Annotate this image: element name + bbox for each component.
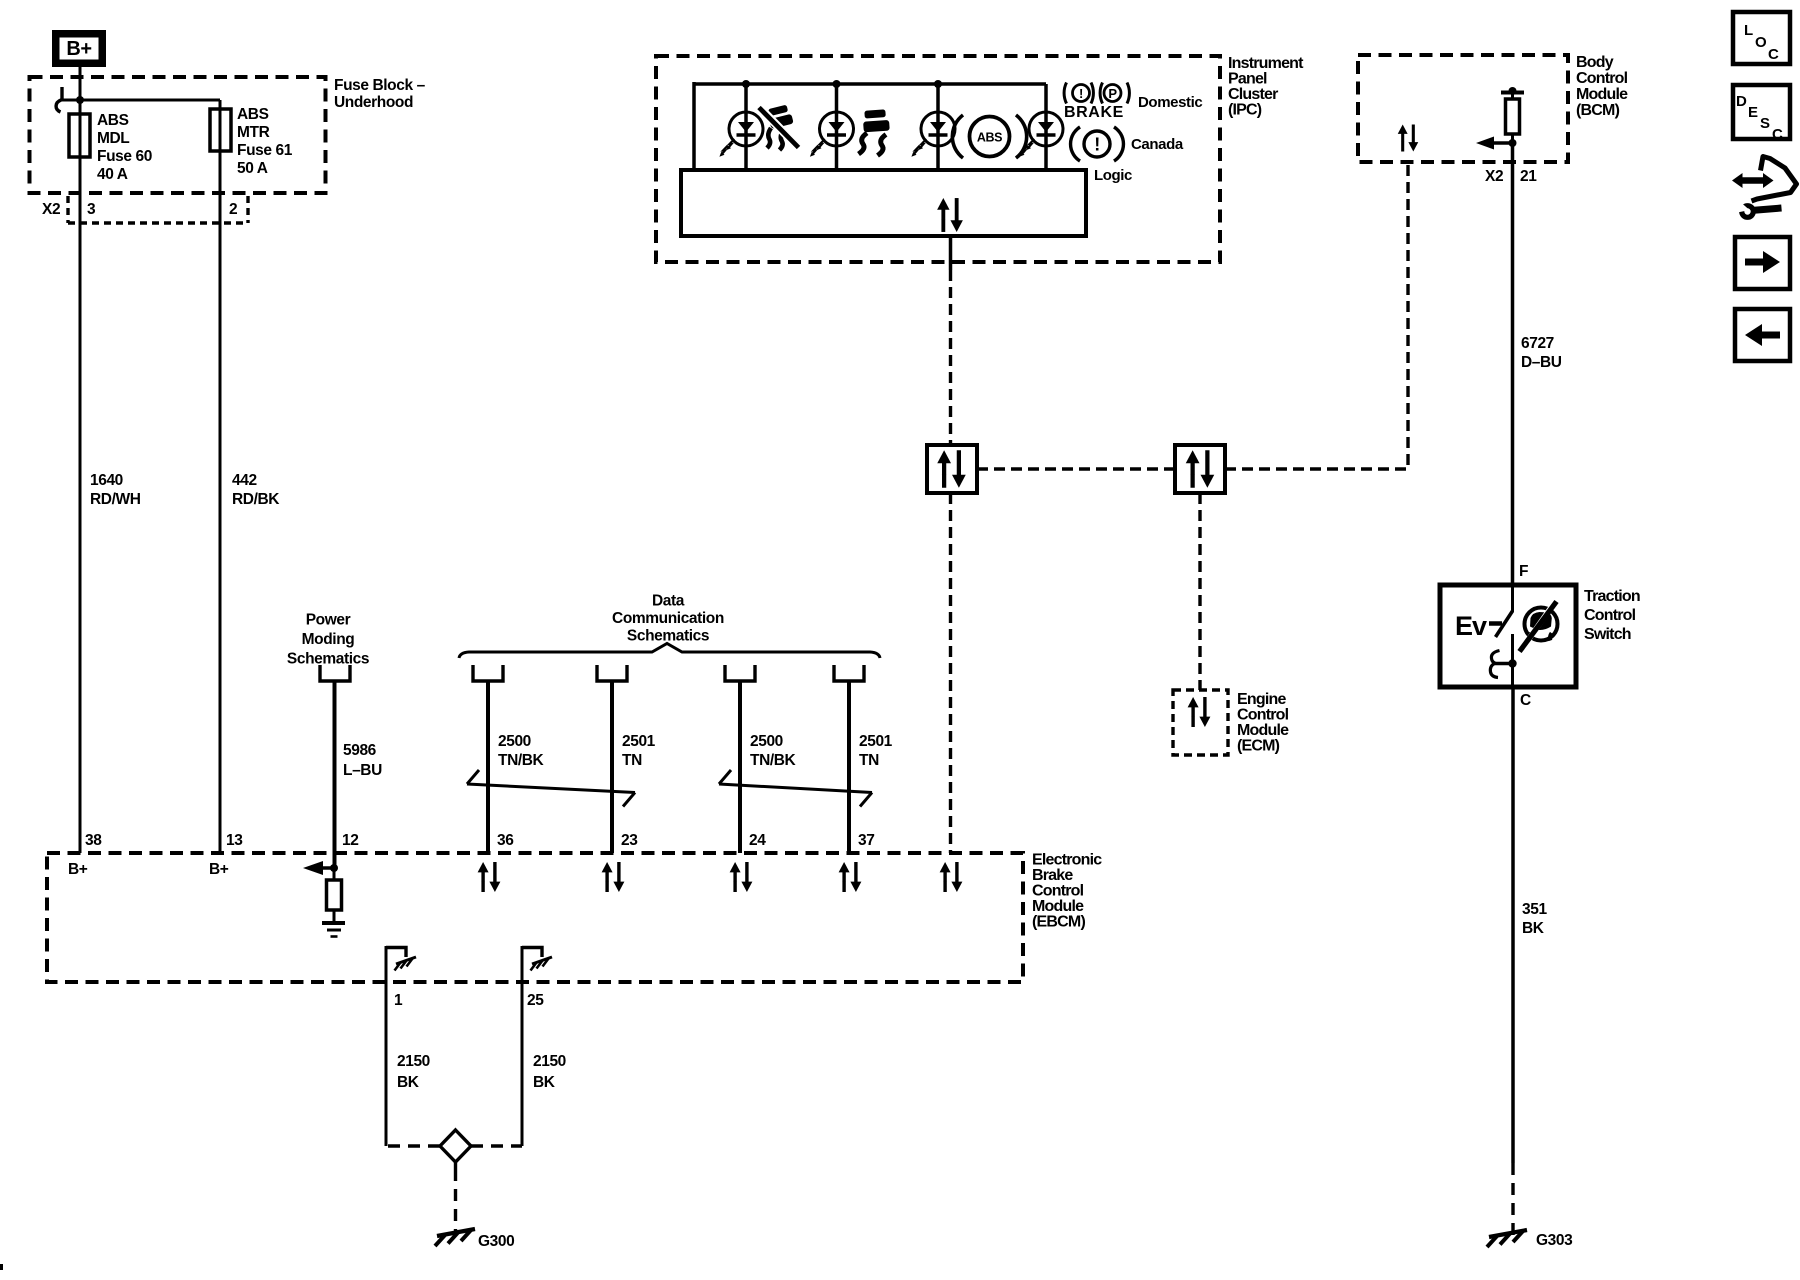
svg-text:37: 37 [858, 832, 874, 849]
svg-text:!: ! [1079, 86, 1083, 101]
BCM internal arrow [1476, 137, 1517, 150]
svg-text:RD/WH: RD/WH [90, 491, 141, 508]
fuse F61 value label [237, 106, 293, 177]
sidebar back arrow button [1735, 309, 1790, 361]
svg-text:25: 25 [527, 992, 544, 1009]
wire 1640 RD/WH [79, 157, 82, 853]
svg-text:Fuse 60: Fuse 60 [97, 148, 152, 165]
EBCM internal arrow (pin 12 feed) [303, 861, 338, 875]
svg-text:L: L [1744, 22, 1753, 39]
svg-text:Schematics: Schematics [287, 651, 369, 668]
serial data dashed wire box1 to box2 [977, 467, 1175, 470]
svg-text:Body: Body [1576, 54, 1614, 71]
svg-text:(EBCM): (EBCM) [1032, 914, 1085, 931]
svg-text:Power: Power [306, 612, 351, 629]
svg-text:13: 13 [226, 832, 243, 849]
svg-text:Control: Control [1584, 607, 1636, 624]
svg-text:TN: TN [859, 752, 879, 769]
wire BCM pin 21 [1511, 143, 1515, 585]
svg-text:2501: 2501 [859, 733, 893, 750]
svg-text:2150: 2150 [533, 1053, 566, 1070]
svg-text:TN: TN [622, 752, 642, 769]
wire LED4 drop [1044, 84, 1048, 170]
svg-text:351: 351 [1522, 901, 1547, 918]
data wire 4 (2501 TN) [847, 681, 851, 853]
connector box 1 arrows [937, 450, 966, 488]
data wire 2 bracket [597, 665, 627, 681]
BCM internal supply bar [1501, 87, 1524, 143]
wire B+ to fuse block [79, 67, 82, 114]
TCS dash [1489, 621, 1502, 626]
BCM arrows [1398, 125, 1419, 152]
svg-text:Moding: Moding [302, 631, 355, 648]
svg-text:12: 12 [342, 832, 358, 849]
data wire 3 (2500 TN/BK) [738, 681, 742, 853]
ECM arrows [1188, 697, 1211, 727]
svg-text:40 A: 40 A [97, 166, 128, 183]
data wire 1 (2500 TN/BK) [486, 681, 490, 853]
svg-text:1: 1 [394, 992, 403, 1009]
svg-text:Fuse 61: Fuse 61 [237, 142, 293, 159]
EBCM up/down arrows serial data [940, 862, 963, 892]
ground G303 [1487, 1230, 1527, 1247]
wire LED3 drop [936, 84, 940, 170]
svg-text:S: S [1760, 115, 1770, 132]
svg-text:Canada: Canada [1131, 136, 1184, 153]
svg-text:5986: 5986 [343, 742, 377, 759]
svg-text:X2: X2 [42, 201, 60, 218]
data wire 4 label [859, 733, 893, 769]
power moding off-page bracket [320, 665, 350, 681]
svg-text:ABS: ABS [977, 131, 1002, 145]
svg-text:Module: Module [1237, 722, 1289, 739]
svg-text:(BCM): (BCM) [1576, 102, 1620, 119]
svg-text:442: 442 [232, 472, 257, 489]
sidebar wrench icon [1732, 157, 1797, 218]
svg-text:C: C [1772, 126, 1783, 143]
splice diamond [440, 1130, 471, 1162]
svg-text:D–BU: D–BU [1521, 354, 1562, 371]
svg-text:Engine: Engine [1237, 691, 1286, 708]
svg-text:Data: Data [652, 593, 685, 610]
svg-text:G303: G303 [1536, 1232, 1573, 1249]
wire 5986 L-BU [333, 681, 337, 868]
svg-text:Control: Control [1237, 707, 1289, 724]
svg-text:23: 23 [621, 832, 638, 849]
junction dot LED2 [833, 80, 841, 88]
twisted pair marker 2 [719, 770, 872, 807]
wire 2150 BK (left) label [397, 1053, 430, 1091]
wire 1640 label [90, 472, 141, 508]
svg-text:BK: BK [397, 1074, 420, 1091]
data wire 2 (2501 TN) [610, 681, 614, 853]
svg-text:Communication: Communication [612, 610, 724, 627]
svg-text:D: D [1736, 93, 1747, 110]
fuse F60 value label [97, 112, 152, 183]
svg-text:Ev: Ev [1455, 611, 1487, 641]
power moding schematics label [287, 612, 369, 668]
serial data connector box 1 [927, 445, 977, 493]
serial data dashed wire box2 to BCM [1225, 162, 1408, 469]
svg-text:ABS: ABS [97, 112, 129, 129]
data communication schematics label [612, 593, 724, 645]
LED indicator 1 [719, 112, 763, 157]
fuse F61 ABS MTR 50A [210, 100, 231, 151]
EBCM ground pigtail pin 25 [522, 946, 552, 1146]
sidebar DESC button [1733, 85, 1790, 143]
wire 6727 D-BU label [1521, 335, 1562, 371]
wire LED1 drop [744, 84, 748, 170]
data wire 1 bracket [473, 665, 503, 681]
data wire 3 bracket [725, 665, 755, 681]
EBCM internal ground [322, 923, 345, 937]
fuse block label [334, 77, 426, 111]
svg-text:BK: BK [533, 1074, 556, 1091]
svg-text:6727: 6727 [1521, 335, 1554, 352]
sidebar next arrow button [1735, 237, 1790, 289]
serial data dashed wire box2 to ECM [1198, 493, 1201, 690]
svg-text:Fuse Block –: Fuse Block – [334, 77, 426, 94]
bus bar hook terminal [56, 87, 62, 112]
svg-text:C: C [1520, 692, 1531, 709]
svg-text:(ECM): (ECM) [1237, 738, 1280, 755]
data wire 4 bracket [834, 665, 864, 681]
wire splice to G300 (dashed) [454, 1162, 457, 1233]
BCM label [1576, 54, 1628, 119]
wire 5986 label [343, 742, 382, 779]
EBCM internal resistor [327, 868, 342, 921]
svg-text:36: 36 [497, 832, 514, 849]
svg-text:Instrument: Instrument [1228, 55, 1304, 72]
wire 351 BK [1511, 687, 1515, 1163]
svg-text:Control: Control [1032, 883, 1084, 900]
data wire 3 label [750, 733, 797, 769]
svg-text:Electronic: Electronic [1032, 852, 1102, 869]
EBCM up/down arrows pin 37 [839, 862, 862, 892]
svg-text:B+: B+ [68, 861, 88, 878]
svg-text:2500: 2500 [750, 733, 783, 750]
logic block arrows [937, 198, 963, 232]
junction dot LED1 [742, 80, 750, 88]
data wire 1 label [498, 733, 545, 769]
svg-text:50 A: 50 A [237, 160, 268, 177]
wire 351 dashed tail [1511, 1163, 1514, 1237]
wire to splice (dashed) [388, 1144, 440, 1147]
data wire 2 label [622, 733, 656, 769]
data communication brace [459, 644, 880, 659]
fuse block - underhood (dashed box) [30, 77, 326, 193]
svg-text:38: 38 [85, 832, 102, 849]
svg-text:P: P [1108, 86, 1117, 101]
EBCM ground pigtail pin 1 [386, 946, 416, 1146]
traction control icon [859, 109, 890, 155]
wire 2150 BK (right) label [533, 1053, 566, 1091]
svg-text:Underhood: Underhood [334, 94, 413, 111]
junction dot LED3 [934, 80, 942, 88]
EBCM electronic brake control module (dashed box) [47, 853, 1023, 982]
LED indicator 2 [810, 112, 854, 157]
LED indicator 4 [1019, 112, 1063, 157]
svg-text:BRAKE: BRAKE [1064, 104, 1124, 121]
IPC instrument panel cluster (dashed box) [656, 56, 1220, 262]
svg-text:1640: 1640 [90, 472, 123, 489]
wire bus to fuse 61 [60, 99, 220, 102]
svg-text:F: F [1519, 563, 1528, 580]
EBCM up/down arrows pin 23 [602, 862, 625, 892]
svg-text:Schematics: Schematics [627, 628, 709, 645]
IPC lamp bus wire [694, 82, 1046, 86]
serial data connector box 2 [1175, 445, 1225, 493]
wire to splice right (dashed) [471, 1144, 522, 1147]
svg-text:O: O [1755, 34, 1767, 51]
svg-text:Domestic: Domestic [1138, 94, 1202, 111]
EBCM up/down arrows pin 24 [730, 862, 753, 892]
svg-text:Control: Control [1576, 70, 1628, 87]
svg-text:2501: 2501 [622, 733, 656, 750]
traction control switch box [1440, 585, 1576, 687]
svg-text:MTR: MTR [237, 124, 270, 141]
page corner mark [0, 1264, 3, 1270]
BCM internal resistor [1506, 99, 1520, 134]
svg-text:MDL: MDL [97, 130, 129, 147]
EBCM label [1032, 852, 1102, 931]
svg-text:C: C [1768, 46, 1779, 63]
svg-text:B+: B+ [66, 38, 91, 60]
svg-text:(IPC): (IPC) [1228, 102, 1262, 119]
sidebar LOC button [1733, 12, 1790, 64]
svg-text:TN/BK: TN/BK [750, 752, 797, 769]
vehicle slip icon with slash [759, 104, 799, 150]
ground G300 [435, 1229, 475, 1246]
serial data dashed wire box1 to EBCM [949, 493, 952, 853]
svg-text:BK: BK [1522, 920, 1545, 937]
BCM body control module (dashed box) [1358, 55, 1568, 162]
svg-text:TN/BK: TN/BK [498, 752, 545, 769]
ECM label [1237, 691, 1289, 755]
brake warning icons domestic [1064, 83, 1129, 104]
svg-text:ABS: ABS [237, 106, 269, 123]
svg-text:B+: B+ [209, 861, 229, 878]
svg-text:X2: X2 [1485, 168, 1503, 185]
svg-text:2: 2 [229, 201, 237, 218]
TCS label [1584, 588, 1640, 643]
svg-text:G300: G300 [478, 1233, 514, 1250]
serial data stub below logic [949, 236, 953, 270]
svg-text:Module: Module [1032, 898, 1084, 915]
connector box 2 arrows [1186, 450, 1215, 488]
brake warning icon canada [1071, 127, 1124, 161]
wire 351 label [1522, 901, 1547, 937]
svg-text:Panel: Panel [1228, 71, 1267, 88]
fuse F60 ABS MDL 40A [69, 100, 90, 157]
svg-text:3: 3 [87, 201, 96, 218]
IPC label [1228, 55, 1304, 119]
svg-text:Switch: Switch [1584, 626, 1631, 643]
svg-text:Module: Module [1576, 86, 1628, 103]
serial data dashed wire IPC to connector box [949, 270, 952, 445]
svg-text:RD/BK: RD/BK [232, 491, 280, 508]
battery feed B+ terminal [52, 30, 106, 67]
TCS actuator [1490, 651, 1516, 678]
svg-text:L–BU: L–BU [343, 762, 382, 779]
svg-text:Logic: Logic [1094, 167, 1132, 184]
svg-text:Cluster: Cluster [1228, 86, 1278, 103]
twisted pair marker 1 [467, 770, 635, 807]
LED indicator 3 [911, 112, 955, 157]
IPC logic block [681, 170, 1086, 236]
TCS no-spin icon [1520, 602, 1558, 652]
svg-text:2500: 2500 [498, 733, 531, 750]
ECM engine control module (dashed box) [1173, 690, 1228, 755]
wire 442 label [232, 472, 280, 508]
svg-text:!: ! [1094, 135, 1100, 155]
svg-text:Brake: Brake [1032, 867, 1073, 884]
wire LED2 drop [835, 84, 839, 170]
svg-text:2150: 2150 [397, 1053, 430, 1070]
TCS switch blade [1496, 585, 1513, 687]
svg-text:Traction: Traction [1584, 588, 1640, 605]
ABS warning icon [952, 115, 1026, 158]
svg-text:24: 24 [749, 832, 766, 849]
wire 442 RD/BK [219, 151, 222, 853]
wire bus left drop [692, 82, 696, 170]
connector X2 (fuse block) dashed [68, 196, 248, 223]
svg-text:21: 21 [1520, 168, 1537, 185]
junction dot fuse bus [76, 96, 84, 104]
svg-text:E: E [1748, 104, 1758, 121]
EBCM up/down arrows pin 36 [478, 862, 501, 892]
